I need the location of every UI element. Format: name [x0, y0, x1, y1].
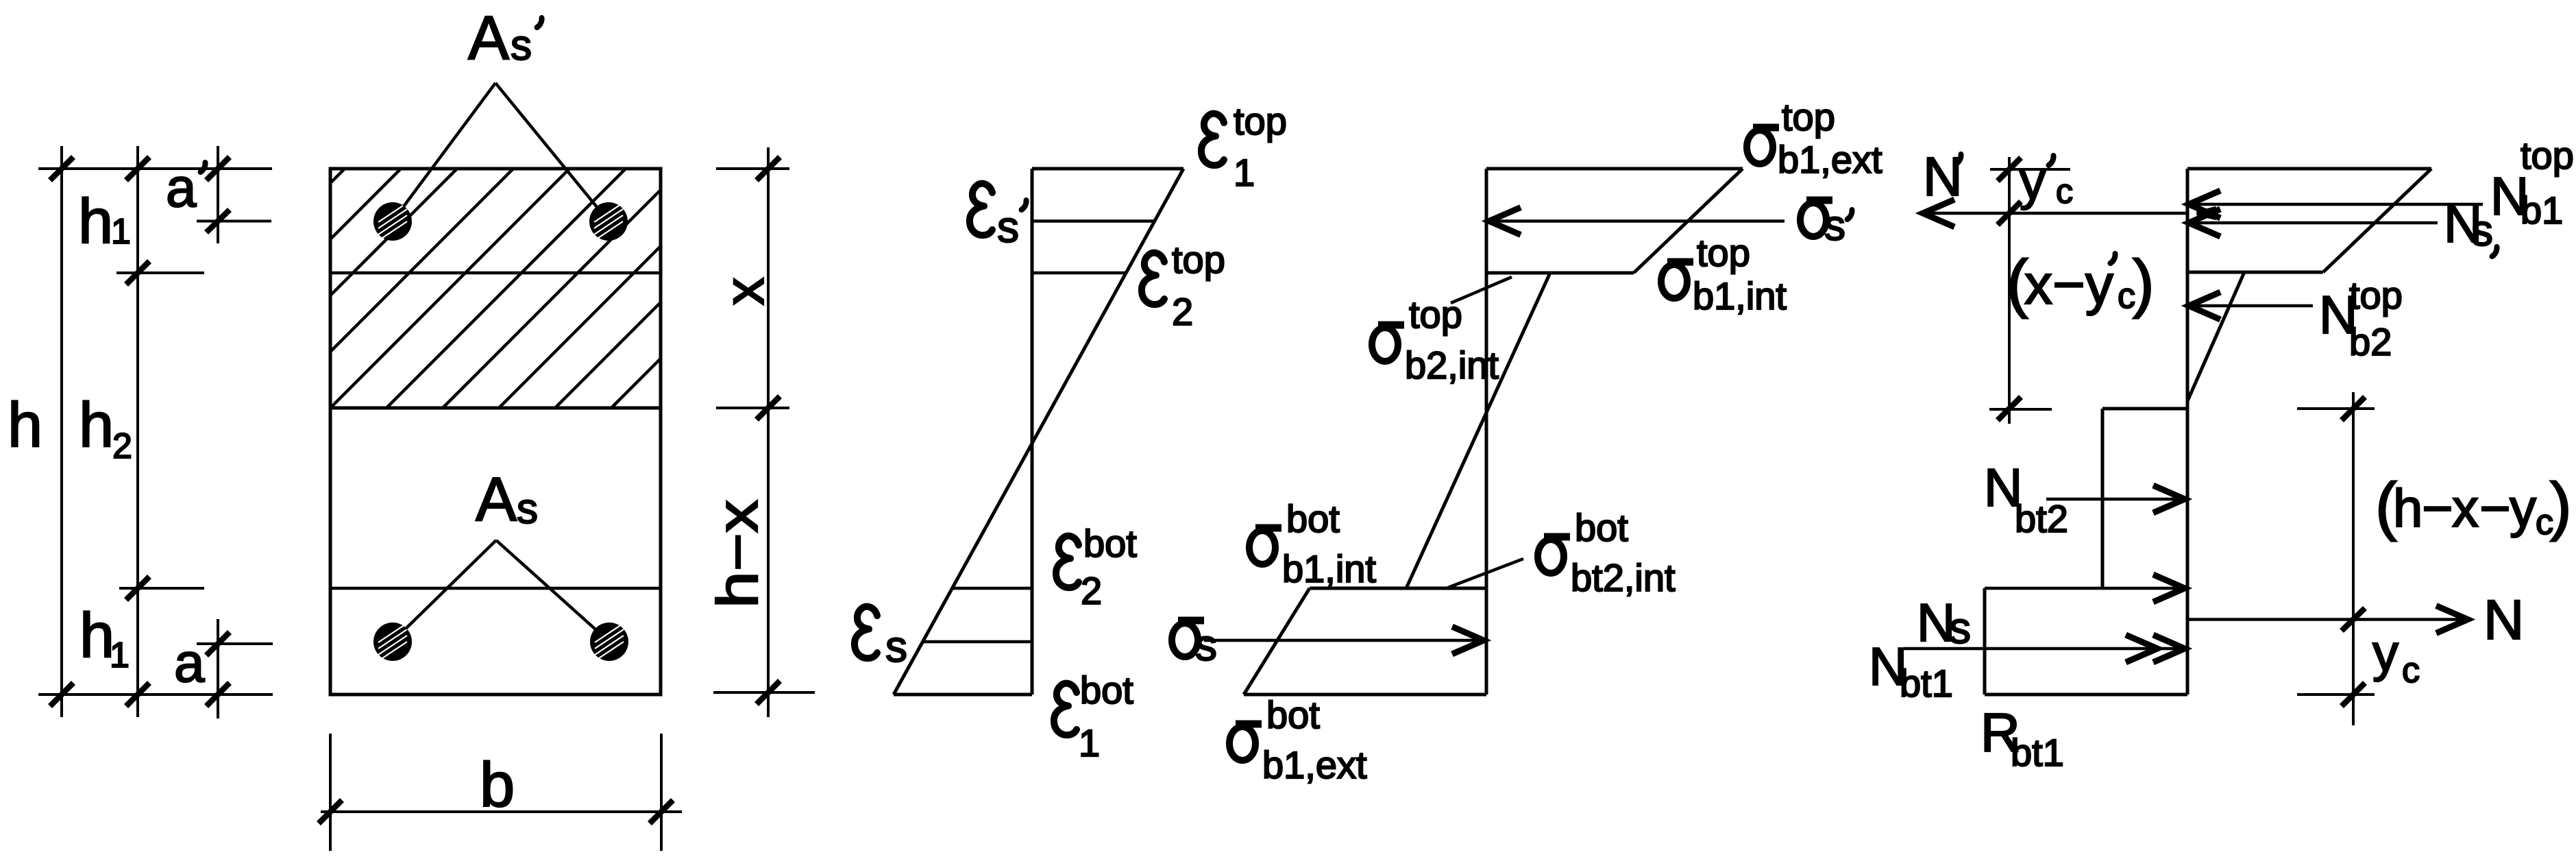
tick yc bottom — [2342, 683, 2365, 706]
extension line top of section — [38, 167, 272, 170]
svg-text:bt2,int: bt2,int — [1571, 556, 1676, 599]
force N-prime line — [1923, 200, 2216, 227]
svg-text:b1,int: b1,int — [1282, 547, 1376, 590]
svg-text:bt2: bt2 — [2015, 497, 2068, 540]
svg-text:2: 2 — [1081, 569, 1102, 612]
tick b left — [319, 800, 342, 823]
force N arrow — [2187, 606, 2468, 633]
section line h1 level — [330, 271, 661, 275]
block Rbt1 top edge / Nbt1 arrow line — [1985, 575, 2185, 602]
rebar As-prime right — [589, 202, 628, 241]
svg-text:b: b — [480, 750, 515, 820]
label Rbt1 — [1980, 702, 2064, 774]
tick a-prime top — [206, 157, 230, 180]
leader sigma-b2int-top — [1451, 277, 1512, 303]
label sigma-b1int-top — [1661, 231, 1787, 317]
extension line y-prime-c top — [1990, 168, 2070, 171]
svg-text:h: h — [78, 186, 113, 256]
hatching of compression zone — [0, 169, 907, 408]
svg-text:−: − — [2479, 478, 2511, 538]
block Rbt1 bottom edge — [1985, 693, 2187, 697]
label h2 — [79, 390, 132, 466]
extension line a-prime level — [197, 220, 271, 223]
svg-text:s: s — [517, 485, 538, 533]
label eps-s — [855, 607, 907, 671]
label x-y-prime-c — [2007, 247, 2155, 319]
svg-text:bot: bot — [1080, 668, 1133, 712]
extension line h1 bottom level — [116, 271, 204, 274]
dim line a-prime (top vertical) — [217, 146, 219, 243]
extension line h-x-yc top — [2297, 407, 2375, 410]
svg-text:y: y — [2510, 478, 2536, 538]
svg-text:c: c — [2056, 172, 2073, 210]
rebar As left — [373, 623, 412, 661]
extension line b right — [660, 734, 663, 851]
svg-text:top: top — [2349, 274, 2403, 317]
tick h1 top — [126, 157, 149, 180]
svg-text:N: N — [2483, 589, 2524, 651]
svg-text:bt1: bt1 — [2011, 731, 2064, 774]
stress bottom edge — [1244, 693, 1486, 697]
label Nb1top — [2490, 134, 2574, 232]
strain level eps2top — [1032, 271, 1125, 275]
svg-text:top: top — [2520, 134, 2574, 177]
force Ns-prime arrow — [2189, 209, 2438, 237]
strain top edge — [1032, 167, 1183, 171]
label Nbt1 — [1869, 636, 1953, 705]
label sigma-b1ext-bot — [1229, 693, 1367, 786]
tick h bottom — [50, 683, 73, 706]
extension line yc bottom — [2297, 693, 2375, 696]
label b — [480, 750, 515, 820]
label As — [476, 466, 538, 534]
leader sigma-bt2int-bot — [1448, 559, 1523, 588]
tick h1 bottom — [126, 261, 149, 285]
stress axis — [1485, 169, 1488, 695]
label sigma-b1int-bot — [1249, 497, 1376, 590]
tick h1b bottom — [126, 683, 149, 706]
tick h-x-yc top — [2342, 397, 2365, 420]
extension line x-y-prime-c bottom — [1989, 408, 2052, 411]
svg-text:1: 1 — [111, 212, 131, 252]
label sigma-s — [1172, 620, 1217, 670]
tick b right — [650, 800, 673, 823]
svg-text:b1,ext: b1,ext — [1778, 138, 1882, 181]
leader As-prime right — [495, 83, 597, 207]
svg-text:A: A — [476, 466, 517, 534]
dim line h (outer vertical) — [60, 146, 63, 717]
leader As right — [496, 540, 596, 629]
tick y-prime-c top — [1998, 158, 2021, 181]
svg-text:bt1: bt1 — [1900, 662, 1953, 705]
label h-x (rotated) — [705, 500, 770, 608]
svg-text:s: s — [885, 622, 907, 671]
svg-text:s: s — [1949, 603, 1971, 653]
svg-text:s: s — [1195, 620, 1217, 670]
label sigma-b1ext-top — [1747, 95, 1882, 181]
label As-prime — [468, 4, 542, 73]
sigma-s-prime arrow — [1489, 208, 1784, 235]
label sigma-bt2int-bot — [1538, 506, 1676, 599]
stress diagonal b2 — [1406, 273, 1550, 588]
strain level eps2bot — [953, 587, 1032, 590]
svg-text:2: 2 — [1172, 290, 1193, 333]
label Nbt2 — [1984, 457, 2068, 540]
svg-text:1: 1 — [1079, 721, 1100, 764]
section line h2 level — [330, 587, 661, 590]
block Rbt1 left edge — [1983, 588, 1987, 695]
svg-text:top: top — [1234, 99, 1287, 143]
section line x level (neutral) — [330, 407, 661, 410]
svg-text:x: x — [713, 278, 776, 306]
svg-text:1: 1 — [110, 636, 130, 675]
label Nb2top — [2319, 274, 2403, 363]
label eps2bot — [1056, 522, 1137, 612]
svg-text:b1: b1 — [2520, 189, 2563, 232]
svg-text:s: s — [1824, 202, 1845, 250]
extension line x bottom — [716, 407, 789, 409]
dim line y-prime-c (vertical) — [2008, 157, 2011, 424]
stress level line h2 — [1310, 587, 1486, 590]
block Nbt2 left edge — [2101, 409, 2105, 588]
extension line h2 bottom level — [119, 587, 204, 590]
label x (rotated) — [713, 278, 776, 306]
svg-text:x: x — [2452, 478, 2479, 538]
svg-text:b2: b2 — [2349, 320, 2392, 363]
strain level eps-s-prime — [1032, 219, 1154, 223]
extension line x top — [716, 167, 789, 170]
label N-prime — [1923, 146, 1963, 207]
svg-text:b1,ext: b1,ext — [1262, 743, 1367, 786]
tick x bottom — [757, 396, 780, 420]
label eps2top — [1142, 238, 1225, 333]
extension line bottom of section — [38, 693, 273, 696]
force diagonal b1 — [2323, 169, 2431, 272]
stress parallelogram left edge — [1244, 588, 1310, 695]
svg-text:b1,int: b1,int — [1693, 274, 1787, 317]
force Nb1top arrow — [2189, 191, 2483, 218]
svg-text:x−y: x−y — [2024, 254, 2113, 316]
label a — [174, 632, 205, 693]
label h — [8, 390, 42, 460]
extension line a level — [197, 642, 273, 645]
dim line b — [321, 810, 682, 813]
leader As left — [406, 540, 496, 629]
svg-text:): ) — [2133, 247, 2155, 319]
force Ns/Nbt1 arrow — [1904, 635, 2185, 662]
svg-text:A: A — [468, 4, 509, 73]
svg-text:b2,int: b2,int — [1405, 343, 1499, 387]
stress level line h1 — [1486, 271, 1634, 275]
label h1 bottom — [79, 601, 130, 675]
extension line b left — [329, 734, 332, 851]
svg-text:s: s — [511, 22, 532, 69]
force level line h1 — [2187, 271, 2323, 274]
label eps1top — [1201, 99, 1287, 194]
svg-text:h: h — [79, 390, 114, 460]
label h-x-yc — [2375, 470, 2572, 542]
force axis — [2186, 169, 2189, 695]
label yc — [2372, 624, 2420, 690]
svg-text:bot: bot — [1286, 497, 1340, 540]
svg-text:y: y — [2020, 152, 2046, 210]
svg-text:top: top — [1782, 95, 1835, 138]
strain bottom edge — [894, 693, 1032, 697]
svg-text:2: 2 — [112, 426, 132, 466]
svg-text:h: h — [8, 390, 42, 460]
svg-text:h: h — [2393, 478, 2422, 538]
tick a top — [206, 632, 230, 655]
svg-text:c: c — [2402, 651, 2420, 690]
svg-text:a: a — [174, 632, 205, 693]
svg-text:y: y — [2372, 624, 2399, 682]
force top edge — [2187, 167, 2431, 171]
label sigma-b2int-top — [1372, 293, 1499, 387]
svg-text:s: s — [997, 202, 1019, 252]
dim line x and h-x (vertical) — [767, 147, 770, 717]
tick y-prime-c bottom — [1998, 397, 2021, 420]
tick h-x bottom — [757, 681, 780, 704]
svg-text:bot: bot — [1575, 506, 1628, 549]
rebar As-prime left — [373, 202, 412, 241]
svg-text:bot: bot — [1266, 693, 1320, 736]
label Ns-prime — [2444, 193, 2497, 256]
force Nb2top arrow — [2189, 292, 2313, 319]
dim line h-x-yc (vertical) — [2352, 392, 2355, 725]
tick h top — [50, 157, 73, 180]
svg-text:top: top — [1409, 293, 1462, 336]
rebar As right — [590, 623, 628, 661]
svg-text:top: top — [1172, 238, 1225, 281]
svg-text:1: 1 — [1234, 151, 1255, 194]
label eps-s-prime — [970, 184, 1027, 252]
tick y-prime-c mid — [1998, 202, 2021, 225]
svg-text:bot: bot — [1083, 522, 1137, 565]
svg-text:top: top — [1697, 231, 1750, 274]
tick a bottom — [206, 683, 230, 706]
stress top edge — [1486, 167, 1743, 171]
dim line h1/h2 chain (vertical) — [136, 146, 139, 717]
svg-text:s: s — [2471, 206, 2493, 255]
stress diagonal b1 top — [1634, 169, 1743, 273]
strain level eps-s — [924, 640, 1032, 644]
label y-prime-c — [2020, 152, 2073, 210]
leader As-prime left — [404, 83, 495, 206]
svg-text:a: a — [166, 157, 197, 218]
tick a-prime bottom — [206, 210, 230, 232]
tick x top — [757, 157, 780, 180]
dim line a (bottom vertical) — [217, 619, 219, 719]
label sigma-s-prime — [1800, 200, 1852, 250]
tick h2 bottom — [126, 577, 149, 600]
section outline — [330, 169, 661, 695]
block Nbt2 top edge — [2102, 407, 2187, 411]
sigma-s arrow — [1204, 627, 1484, 654]
label eps1bot — [1054, 668, 1133, 764]
extension line h-x bottom — [713, 691, 815, 694]
strain diagonal — [894, 169, 1183, 695]
label h1 top — [78, 186, 131, 256]
label Ns — [1917, 592, 1971, 653]
tick h-x-yc mid — [2342, 608, 2365, 631]
svg-text:h−x: h−x — [705, 500, 770, 608]
svg-text:N: N — [1923, 146, 1963, 207]
svg-text:): ) — [2550, 470, 2572, 542]
force diagonal b2 — [2187, 272, 2244, 401]
force Nbt2 arrow — [2046, 485, 2185, 513]
svg-text:−: − — [2422, 478, 2453, 538]
label a-prime — [166, 157, 206, 218]
label N — [2483, 589, 2524, 651]
strain axis — [1031, 169, 1034, 695]
